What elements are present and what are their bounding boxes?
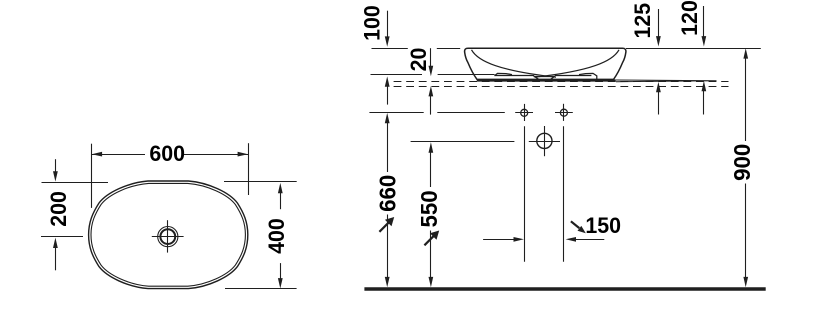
rim level extension line — [372, 48, 761, 50]
drain front view — [529, 126, 560, 156]
variable-dim arrow 550 — [424, 231, 439, 246]
dimension 100 — [359, 5, 389, 104]
dimension 550 — [415, 142, 442, 287]
tick line 660 level — [369, 112, 504, 114]
dimension 150 — [483, 213, 621, 242]
tick line 550 level — [411, 141, 515, 143]
shelf level extension line — [371, 74, 495, 76]
dimension 20 — [406, 48, 434, 115]
svg-text:400: 400 — [263, 218, 289, 254]
dimension 660 — [374, 113, 401, 287]
svg-text:900: 900 — [728, 144, 755, 181]
svg-text:550: 550 — [415, 190, 442, 227]
dimension 600 (top width) — [92, 140, 249, 207]
variable-dim arrow 660 — [379, 217, 394, 232]
tap hole left (front view) — [515, 104, 533, 121]
basin front-view outline — [465, 48, 626, 80]
svg-text:660: 660 — [374, 175, 401, 212]
basin top-view outer outline — [89, 181, 248, 289]
dimension 400 (top height) — [224, 182, 297, 289]
svg-text:150: 150 — [585, 213, 621, 239]
variable-dim arrow 150 — [571, 221, 586, 233]
svg-text:100: 100 — [359, 5, 385, 41]
svg-text:125: 125 — [629, 3, 655, 39]
svg-text:20: 20 — [406, 48, 432, 72]
floor line — [364, 287, 765, 290]
svg-text:600: 600 — [149, 140, 185, 166]
countertop slab right of basin — [616, 80, 717, 82]
dimension 125 — [629, 3, 660, 115]
tap hole right (front view) — [555, 104, 573, 121]
basin interior shelf and drain recess — [495, 73, 597, 80]
drain top view — [152, 220, 184, 252]
svg-text:120: 120 — [676, 0, 702, 36]
dimension 120 — [676, 0, 706, 114]
dimension 900 — [728, 48, 755, 287]
svg-text:200: 200 — [46, 191, 72, 227]
dimension 200 (top to drain center) — [41, 159, 108, 270]
countertop dashed lines — [394, 82, 729, 87]
basin top-view inner outline — [91, 183, 245, 286]
tap hole extension stubs — [525, 126, 564, 262]
